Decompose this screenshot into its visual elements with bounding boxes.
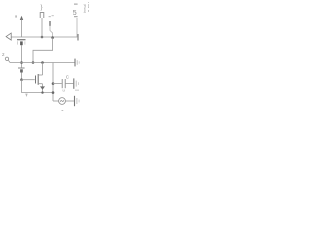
- MOSFET T2: gate bar: [35, 76, 37, 84]
- source wire down with arrowhead: [42, 84, 44, 93]
- node dot rail1 / x52.6: [51, 36, 54, 39]
- AC source tilde: [60, 100, 64, 101]
- rail1 horizontal wire y=37: [11, 36, 79, 38]
- battery U1: side strokes: [17, 41, 19, 44]
- node dot source wire / y92.6: [41, 91, 43, 93]
- MOSFET T2: source lead: [38, 83, 42, 85]
- ground rotated at cap: bar3: [77, 82, 79, 85]
- MOSFET T2: gate lead: [22, 79, 35, 81]
- node dot rail2 / x42.5 (drain): [41, 61, 44, 64]
- node dot x53 / bottom wire: [52, 91, 55, 94]
- battery U1: top plate: [17, 39, 26, 41]
- svg-text:}: }: [41, 5, 43, 11]
- output arrow (open, pointing left) at rail1 left end: [6, 33, 11, 40]
- wire battery U2 down to gate node: [21, 73, 23, 80]
- tiny speck label left of chevron: [15, 15, 17, 17]
- wire gate node down: [21, 80, 23, 93]
- node dot x53 / cap lead: [52, 82, 55, 85]
- svg-text:u: u: [63, 88, 65, 93]
- node dot rail1 / x42: [41, 36, 44, 39]
- rail2 horizontal wire y=62.5: [10, 62, 75, 64]
- node dot rail2 / x21: [20, 61, 23, 64]
- battery U2: long plate: [18, 67, 25, 69]
- ground rotated at cap: bar1: [73, 78, 75, 88]
- battery U1: thick short electrode: [20, 41, 23, 45]
- wire Z from rail1 down-left to rail2: [33, 38, 53, 63]
- MOSFET T2: drain lead: [38, 74, 42, 76]
- supply stub upper middle (x50): [49, 21, 51, 26]
- label stack terminal top right: [74, 4, 78, 5]
- faint label near cap ground: [75, 90, 79, 91]
- capacitor C1 plates: [61, 79, 63, 88]
- ground rotated at AC: bar3: [78, 100, 80, 103]
- capacitor C1 lead left: [53, 83, 62, 85]
- MOSFET T2: channel bar: [37, 74, 39, 85]
- drain wire down from rail2: [42, 63, 44, 76]
- AC source lead right: [65, 100, 74, 102]
- wire with jog from stub down across rail1: [50, 26, 53, 38]
- ground rotated at AC: bar2: [76, 98, 78, 104]
- wire from top-right terminal down to rail1 end: [76, 18, 78, 37]
- node dot gate: [20, 78, 23, 81]
- svg-text:5: 5: [73, 10, 77, 17]
- wire from terminal circle to rail2: [8, 60, 10, 63]
- wire from chevron down to rail1: [21, 20, 23, 38]
- ground rotated at rail2 right end: bar1: [74, 59, 76, 67]
- capacitor C1 lead right: [66, 83, 74, 85]
- terminal chevron top left (x21): [20, 16, 23, 20]
- corner wire x53 to AC source: [53, 100, 59, 102]
- arrowhead on source wire (pointing down): [40, 86, 45, 89]
- tiny speck below bottom wire: [25, 94, 27, 97]
- battery U2: thick short electrode: [20, 69, 23, 72]
- wire battery U1 down to rail2: [21, 45, 23, 68]
- ground rotated bar3: [78, 61, 80, 63]
- ground rotated at AC: bar1: [74, 96, 76, 106]
- terminal tick bar at rail1 right end: [77, 34, 79, 41]
- wire from top-center terminal down to rail1: [41, 18, 43, 37]
- ground rotated bar2: [76, 60, 78, 65]
- vertical net x53 from rail2 down: [52, 63, 54, 102]
- node dot rail2 / x33: [32, 61, 35, 64]
- svg-text:(Preis): (Preis): [83, 4, 87, 13]
- terminal symbol (open bracket) top center: [40, 13, 44, 18]
- AC source circle: [59, 98, 66, 105]
- ground rotated at cap: bar2: [75, 81, 77, 87]
- wire bottom horizontal to source junction: [22, 92, 54, 94]
